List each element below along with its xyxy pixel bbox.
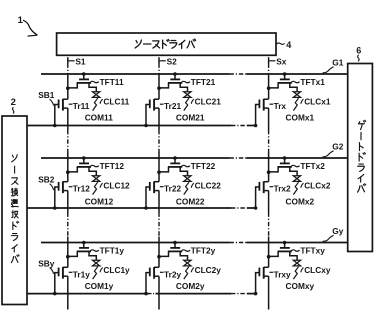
svg-text:CLC11: CLC11 bbox=[103, 96, 129, 106]
wire: select line SB1 bbox=[27, 125, 255, 127]
wire: S1 lower segment row 2 bbox=[67, 191, 69, 243]
label TFTx2 with tilde leader bbox=[290, 161, 325, 171]
transistor TFTx2 (pixel TFT) bbox=[267, 156, 297, 176]
wire: S1 segment in row 2 bbox=[67, 158, 69, 182]
node COM21 (common electrode) bbox=[176, 112, 205, 122]
label Tr22 with dash leader bbox=[160, 184, 182, 194]
svg-text:Gy: Gy bbox=[332, 226, 343, 236]
wire: S2 segment in row 2 bbox=[158, 158, 160, 182]
svg-text:TFT22: TFT22 bbox=[191, 161, 216, 171]
wire: S1 lower segment row 1 bbox=[67, 108, 69, 158]
label Trx with dash leader bbox=[270, 101, 287, 111]
svg-text:COMx1: COMx1 bbox=[286, 112, 315, 122]
wire: gate line G1 bbox=[41, 73, 348, 75]
capacitor CLCx2 (liquid crystal cell) bbox=[293, 176, 300, 195]
svg-text:CLC2y: CLC2y bbox=[195, 265, 222, 275]
label TFT2y with tilde leader bbox=[180, 246, 215, 256]
transistor TFT1y (pixel TFT) bbox=[66, 241, 96, 261]
svg-text:TFTx1: TFTx1 bbox=[300, 77, 325, 87]
label TFT22 with tilde leader bbox=[180, 161, 215, 171]
label TFTxy with tilde leader bbox=[290, 246, 325, 256]
svg-text:TFT21: TFT21 bbox=[191, 77, 216, 87]
wire: S1 segment in row 1 bbox=[67, 74, 69, 99]
wire: source line S1 top stub bbox=[67, 57, 69, 74]
svg-text:S1: S1 bbox=[75, 57, 86, 67]
label CLCx1 with leader bbox=[301, 96, 331, 106]
wire: source line S2 top stub bbox=[158, 57, 160, 74]
transistor Trxy (source select switch) bbox=[254, 267, 269, 295]
svg-text:SB2: SB2 bbox=[38, 175, 55, 185]
label CLCx2 with leader bbox=[301, 180, 331, 190]
svg-text:G2: G2 bbox=[332, 141, 343, 151]
label CLC22 with leader bbox=[191, 180, 221, 190]
svg-text:Tr21: Tr21 bbox=[164, 101, 181, 111]
svg-text:CLC21: CLC21 bbox=[195, 96, 222, 106]
label TFT12 with tilde leader bbox=[89, 161, 124, 171]
label TFT1y with tilde leader bbox=[89, 246, 124, 256]
svg-text:2: 2 bbox=[11, 97, 16, 108]
svg-text:TFT12: TFT12 bbox=[100, 161, 125, 171]
capacitor CLCxy (liquid crystal cell) bbox=[293, 260, 300, 279]
svg-text:TFTx2: TFTx2 bbox=[300, 161, 325, 171]
svg-text:4: 4 bbox=[286, 40, 291, 50]
svg-text:COMx2: COMx2 bbox=[286, 196, 315, 206]
svg-text:COM11: COM11 bbox=[85, 112, 114, 122]
label 4 on source driver bbox=[277, 40, 292, 50]
label CLC1y with leader bbox=[100, 265, 130, 275]
svg-text:COM22: COM22 bbox=[176, 196, 205, 206]
svg-text:COM12: COM12 bbox=[85, 196, 114, 206]
capacitor CLC12 (liquid crystal cell) bbox=[93, 176, 100, 195]
label S1 tick bbox=[68, 57, 86, 67]
label Tr21 with dash leader bbox=[160, 101, 182, 111]
label Trx2 with dash leader bbox=[270, 184, 292, 194]
svg-text:COM1y: COM1y bbox=[85, 281, 114, 291]
capacitor CLC11 (liquid crystal cell) bbox=[93, 92, 100, 111]
svg-text:Trx: Trx bbox=[274, 101, 287, 111]
transistor TFT2y (pixel TFT) bbox=[157, 241, 187, 261]
svg-text:Tr11: Tr11 bbox=[73, 101, 90, 111]
label Sx tick bbox=[269, 57, 287, 67]
source line selection driver block (left box) bbox=[2, 116, 27, 305]
wire: S2 segment in row y bbox=[158, 243, 160, 268]
wire: select line SBy bbox=[27, 293, 255, 295]
svg-text:TFTxy: TFTxy bbox=[300, 246, 325, 256]
svg-text:TFT2y: TFT2y bbox=[191, 246, 216, 256]
label Tr11 with dash leader bbox=[69, 101, 90, 111]
wire: select line SB2 bbox=[27, 207, 255, 209]
transistor TFTxy (pixel TFT) bbox=[267, 241, 297, 261]
transistor Tr21 (source select switch) bbox=[144, 99, 159, 127]
capacitor CLC2y (liquid crystal cell) bbox=[184, 260, 191, 279]
wire: Sx segment in row 1 bbox=[268, 74, 270, 99]
node COMxy (common electrode) bbox=[286, 281, 315, 291]
capacitor CLC21 (liquid crystal cell) bbox=[184, 92, 191, 111]
label 6 on gate driver bbox=[356, 45, 361, 61]
label 2 on left box bbox=[11, 97, 16, 113]
wire: Sx segment in row 2 bbox=[268, 158, 270, 182]
svg-text:COMxy: COMxy bbox=[286, 281, 315, 291]
transistor Tr12 (source select switch) bbox=[53, 181, 68, 209]
label CLC21 with leader bbox=[191, 96, 221, 106]
wire: S2 lower segment row 2 bbox=[158, 191, 160, 243]
wire: source line Sx top stub bbox=[268, 57, 270, 74]
label Gy with leader bbox=[323, 226, 344, 241]
svg-text:SBy: SBy bbox=[38, 258, 55, 268]
label Trxy with dash leader bbox=[270, 269, 292, 279]
svg-text:Tr2y: Tr2y bbox=[164, 269, 181, 279]
wire: S2 lower segment row 1 bbox=[158, 108, 160, 158]
label G2 with leader bbox=[323, 141, 344, 156]
node COM1y (common electrode) bbox=[85, 281, 114, 291]
node COM12 (common electrode) bbox=[85, 196, 114, 206]
svg-text:6: 6 bbox=[356, 45, 361, 55]
svg-text:CLC1y: CLC1y bbox=[103, 265, 130, 275]
label Tr2y with dash leader bbox=[160, 269, 182, 279]
svg-text:Trx2: Trx2 bbox=[274, 184, 291, 194]
svg-text:CLCxy: CLCxy bbox=[304, 265, 331, 275]
svg-text:Tr12: Tr12 bbox=[73, 184, 90, 194]
capacitor CLC22 (liquid crystal cell) bbox=[184, 176, 191, 195]
capacitor CLC1y (liquid crystal cell) bbox=[93, 260, 100, 279]
svg-text:Trxy: Trxy bbox=[274, 269, 291, 279]
label TFT21 with tilde leader bbox=[180, 77, 215, 87]
wire: Sx lower segment row 1 bbox=[268, 108, 270, 158]
transistor TFT12 (pixel TFT) bbox=[66, 156, 96, 176]
svg-text:1: 1 bbox=[18, 15, 24, 26]
transistor Trx2 (source select switch) bbox=[254, 181, 269, 209]
svg-text:CLC12: CLC12 bbox=[103, 180, 130, 190]
label S2 tick bbox=[160, 57, 178, 67]
node COM2y (common electrode) bbox=[176, 281, 205, 291]
wire: Sx lower segment row 2 bbox=[268, 191, 270, 243]
label Tr1y with dash leader bbox=[69, 269, 91, 279]
transistor Tr1y (source select switch) bbox=[53, 267, 68, 295]
svg-text:TFT11: TFT11 bbox=[100, 77, 124, 87]
wire: Sx lower segment row y bbox=[268, 276, 270, 309]
source driver block (top box) bbox=[57, 33, 276, 55]
node COM11 (common electrode) bbox=[85, 112, 114, 122]
label TFTx1 with tilde leader bbox=[290, 77, 325, 87]
label 1 with leader arrow to panel bbox=[18, 15, 38, 36]
svg-text:Tr1y: Tr1y bbox=[73, 269, 90, 279]
svg-text:SB1: SB1 bbox=[38, 90, 55, 100]
node COM22 (common electrode) bbox=[176, 196, 205, 206]
transistor TFT21 (pixel TFT) bbox=[157, 72, 187, 92]
node COMx1 (common electrode) bbox=[286, 112, 315, 122]
svg-text:COM21: COM21 bbox=[176, 112, 205, 122]
transistor Tr11 (source select switch) bbox=[53, 99, 68, 127]
label SB2 with leader bbox=[38, 175, 55, 191]
transistor Tr22 (source select switch) bbox=[144, 181, 159, 209]
svg-text:S2: S2 bbox=[167, 57, 178, 67]
capacitor CLCx1 (liquid crystal cell) bbox=[293, 92, 300, 111]
wire: gate line G2 bbox=[41, 157, 348, 159]
node COMx2 (common electrode) bbox=[286, 196, 315, 206]
label CLC11 with leader bbox=[100, 96, 130, 106]
svg-text:TFT1y: TFT1y bbox=[100, 246, 125, 256]
label CLC12 with leader bbox=[100, 180, 130, 190]
transistor Tr2y (source select switch) bbox=[144, 267, 159, 295]
label Tr12 with dash leader bbox=[69, 184, 91, 194]
wire: S1 segment in row y bbox=[67, 243, 69, 268]
label G1 with leader bbox=[323, 57, 344, 72]
label CLC2y with leader bbox=[191, 265, 221, 275]
wire: S2 lower segment row y bbox=[158, 276, 160, 309]
transistor TFT22 (pixel TFT) bbox=[157, 156, 187, 176]
label CLCxy with leader bbox=[301, 265, 331, 275]
transistor Trx (source select switch) bbox=[254, 99, 269, 127]
gate driver block (right box) bbox=[348, 64, 373, 252]
wire: gate line Gy bbox=[41, 242, 348, 244]
svg-text:CLC22: CLC22 bbox=[195, 180, 222, 190]
label SBy with leader bbox=[38, 258, 55, 274]
svg-text:COM2y: COM2y bbox=[176, 281, 205, 291]
svg-text:Sx: Sx bbox=[276, 57, 287, 67]
label SB1 with leader bbox=[38, 90, 55, 106]
label TFT11 with tilde leader bbox=[89, 77, 124, 87]
svg-text:G1: G1 bbox=[332, 57, 343, 67]
svg-text:CLCx1: CLCx1 bbox=[304, 96, 331, 106]
wire: S2 segment in row 1 bbox=[158, 74, 160, 99]
wire: Sx segment in row y bbox=[268, 243, 270, 268]
svg-text:CLCx2: CLCx2 bbox=[304, 180, 331, 190]
transistor TFT11 (pixel TFT) bbox=[66, 72, 96, 92]
svg-text:Tr22: Tr22 bbox=[164, 184, 181, 194]
wire: S1 lower segment row y bbox=[67, 276, 69, 309]
transistor TFTx1 (pixel TFT) bbox=[267, 72, 297, 92]
